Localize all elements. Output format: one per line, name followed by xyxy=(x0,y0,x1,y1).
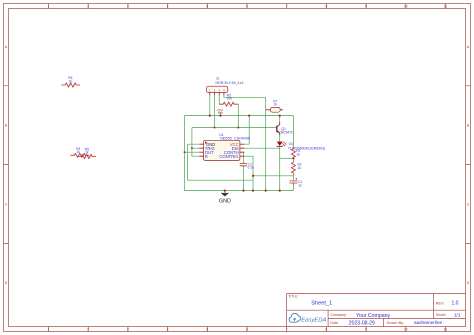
svg-text:GND: GND xyxy=(219,198,231,204)
svg-text:aashamerline: aashamerline xyxy=(414,320,443,325)
svg-text:Sheet_1: Sheet_1 xyxy=(311,300,332,306)
svg-text:CONTRIG: CONTRIG xyxy=(219,154,238,159)
svg-text:2: 2 xyxy=(87,328,89,332)
svg-text:3: 3 xyxy=(127,328,129,332)
svg-text:11: 11 xyxy=(444,5,448,9)
svg-text:C: C xyxy=(467,202,470,206)
svg-text:1k: 1k xyxy=(296,152,300,156)
svg-text:TITLE:: TITLE: xyxy=(288,295,298,299)
svg-text:Company:: Company: xyxy=(330,313,346,317)
svg-text:4: 4 xyxy=(167,5,169,9)
svg-text:8: 8 xyxy=(326,328,328,332)
svg-text:4: 4 xyxy=(167,328,169,332)
svg-text:A: A xyxy=(5,45,8,49)
svg-text:2023-08-29: 2023-08-29 xyxy=(349,320,375,326)
svg-text:5: 5 xyxy=(206,328,208,332)
svg-text:D: D xyxy=(5,281,8,285)
svg-text:10k: 10k xyxy=(227,97,233,101)
svg-text:Drawn By:: Drawn By: xyxy=(387,321,405,325)
svg-text:2: 2 xyxy=(87,5,89,9)
svg-text:A: A xyxy=(467,45,470,49)
svg-text:1/1: 1/1 xyxy=(454,313,461,318)
svg-text:1k: 1k xyxy=(76,150,80,154)
svg-text:1k: 1k xyxy=(69,79,73,83)
svg-text:3: 3 xyxy=(127,5,129,9)
svg-text:TLHG5800A1(GREEN): TLHG5800A1(GREEN) xyxy=(288,147,325,151)
svg-text:EasyEDA: EasyEDA xyxy=(301,317,326,323)
svg-text:0.1u: 0.1u xyxy=(248,166,254,170)
svg-text:Date:: Date: xyxy=(330,321,339,325)
svg-text:7: 7 xyxy=(286,328,288,332)
svg-text:B: B xyxy=(467,124,470,128)
svg-text:10: 10 xyxy=(404,328,408,332)
svg-text:1k: 1k xyxy=(298,166,302,170)
svg-text:8: 8 xyxy=(326,5,328,9)
svg-text:10: 10 xyxy=(404,5,408,9)
svg-text:1u: 1u xyxy=(298,183,302,187)
svg-text:1: 1 xyxy=(48,328,50,332)
svg-text:NE555_CS04000: NE555_CS04000 xyxy=(220,136,251,141)
svg-text:5: 5 xyxy=(206,5,208,9)
svg-text:U3: U3 xyxy=(289,142,293,146)
svg-text:Sheet:: Sheet: xyxy=(436,313,446,317)
svg-text:B: B xyxy=(5,124,8,128)
svg-text:HDR-M-2.54_1x4: HDR-M-2.54_1x4 xyxy=(216,81,244,85)
svg-text:1k: 1k xyxy=(274,103,278,107)
svg-text:1.0: 1.0 xyxy=(452,301,459,307)
svg-text:+5V: +5V xyxy=(216,109,223,113)
svg-text:6: 6 xyxy=(246,5,248,9)
svg-text:1k: 1k xyxy=(85,151,89,155)
svg-text:11: 11 xyxy=(444,328,448,332)
svg-text:Your Company: Your Company xyxy=(356,313,391,319)
svg-text:7: 7 xyxy=(286,5,288,9)
svg-text:BC547C: BC547C xyxy=(281,130,295,134)
svg-text:1: 1 xyxy=(48,5,50,9)
svg-text:R: R xyxy=(205,154,208,159)
svg-text:REV:: REV: xyxy=(436,301,445,305)
svg-text:C: C xyxy=(5,202,8,206)
svg-text:9: 9 xyxy=(365,328,367,332)
svg-text:9: 9 xyxy=(365,5,367,9)
svg-text:6: 6 xyxy=(246,328,248,332)
svg-text:D: D xyxy=(467,281,470,285)
